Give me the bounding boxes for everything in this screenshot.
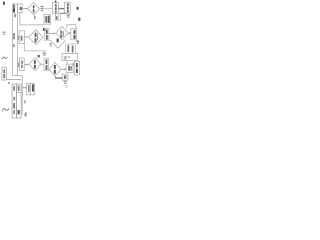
numeral left of B7: [73, 63, 74, 67]
B11 text: [28, 85, 30, 93]
numeral 10: [64, 81, 67, 82]
box B5 (row D4 left): [20, 58, 25, 71]
arrow D2 to B3: [69, 32, 70, 34]
squiggle S2: [2, 108, 9, 111]
wire W5 (drop from B1 then long horizontal): [20, 13, 44, 25]
tiny numeral above T2a: [8, 82, 9, 84]
wire W9: [41, 63, 44, 65]
numeral 98a: [43, 28, 46, 31]
T1 text mark 2: [13, 33, 15, 39]
numeral 30: [77, 7, 79, 10]
wire W8 arrow to D4: [24, 63, 27, 65]
box B1 (row1 left): [17, 4, 22, 13]
numeral 22: [67, 14, 70, 16]
wire W10 arrow to B6: [61, 68, 64, 70]
box B2a: [52, 3, 58, 14]
box B3: [71, 29, 77, 40]
figure number 8: [3, 2, 5, 5]
T1 vertical text dark bar (top): [13, 5, 15, 13]
box B2b: [64, 3, 70, 14]
wire W6 arrow to D3: [25, 36, 28, 38]
diamond D5: [49, 63, 61, 76]
D4 text: [34, 60, 36, 64]
wire from D5 bottom: [54, 76, 56, 78]
tall box T2b: [17, 84, 22, 118]
squiggle S1: [2, 57, 7, 59]
box B4 (row D3 left): [19, 31, 24, 44]
B2a vertical text: [55, 4, 57, 7]
D5 text: [54, 65, 56, 69]
B3 vertical text: [74, 30, 76, 34]
box B7: [74, 61, 79, 75]
D2 text: [60, 31, 62, 34]
box B10: [2, 67, 7, 80]
heavy wire bottom middle: [55, 77, 62, 79]
numeral left of B5: [18, 63, 19, 67]
tick above B2a: [55, 0, 56, 2]
box G1: [44, 15, 51, 25]
box B8 (wide): [62, 53, 78, 60]
tall box T2a: [12, 84, 17, 118]
faint mark: [66, 85, 67, 88]
wire B8 to B6: [66, 61, 68, 64]
left margin numeral: [3, 32, 6, 33]
box B6: [66, 64, 73, 72]
numeral 98b: [57, 39, 59, 43]
T2b divider: [17, 91, 22, 93]
box G3: [44, 29, 49, 41]
B12 text: [64, 76, 67, 79]
numeral at D4 apex: [38, 55, 40, 57]
box B12: [62, 74, 68, 80]
G2 text: [56, 16, 58, 19]
leader L2 diagonal: [50, 40, 59, 49]
diamond D1: [28, 2, 40, 14]
numeral left of B4: [18, 36, 19, 40]
leader L1: [67, 25, 76, 29]
B5 text: [21, 61, 23, 64]
B11 divider: [30, 83, 32, 95]
arrow into B11: [22, 87, 25, 89]
T1 text mark 1: [14, 14, 16, 18]
G2 divider: [57, 14, 59, 21]
diamond D4: [29, 58, 41, 71]
D3 text: [35, 33, 37, 37]
box G2: [56, 14, 61, 21]
diamond D2: [56, 26, 69, 39]
numeral 96: [50, 43, 52, 45]
B4 text: [21, 36, 23, 41]
wire W2: [44, 8, 53, 10]
T1 bottom wire: [15, 76, 22, 115]
wire W3 arrow to B2b: [59, 8, 64, 10]
wire below B2a: [55, 13, 57, 19]
box B11: [27, 83, 35, 95]
T2a text marks: [13, 86, 15, 91]
numeral 14: [25, 113, 27, 117]
wire W7: [24, 44, 46, 51]
B10 text: [3, 69, 5, 73]
numeral 20: [77, 41, 80, 43]
G1 text columns: [45, 16, 47, 23]
diamond D3: [29, 30, 43, 45]
T2b text marks: [18, 86, 20, 91]
D1 text: [33, 5, 35, 8]
B8 text: [64, 56, 67, 57]
tall box T1 (vertical label box, left bus): [13, 4, 18, 76]
T1 text mark 3: [13, 44, 15, 47]
box G4: [44, 58, 49, 70]
B6 text: [68, 66, 70, 71]
B9 text columns: [67, 45, 69, 52]
wire W11: [7, 79, 20, 81]
B7 text: [76, 63, 78, 68]
box B9 (two-column text box): [66, 44, 76, 53]
B2b bottom dark edge: [60, 12, 67, 14]
numeral 24: [78, 18, 80, 21]
numeral 94: [41, 6, 44, 7]
B2b vertical text: [67, 4, 69, 7]
numeral beside wire: [24, 100, 26, 103]
numeral below D1: [34, 16, 35, 20]
G4 text: [46, 60, 48, 65]
G3 text: [46, 30, 48, 34]
wire W1 arrow to D1: [22, 8, 27, 10]
arrow G3 to D2: [49, 32, 54, 34]
B1 text: [20, 7, 22, 10]
